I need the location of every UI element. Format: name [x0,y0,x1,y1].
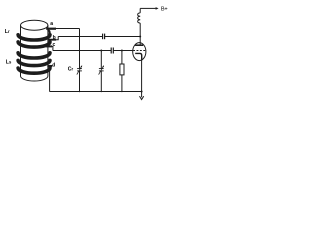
wire c continues to tube grid [113,50,132,52]
variable capacitor Cr2 arrow [99,66,104,75]
winding Ls band 2 [18,60,50,65]
coil form cylinder left side [20,25,22,76]
ground bus wire [50,91,142,93]
wire b jog up [56,37,58,40]
variable capacitor Cr1 bottom plate [77,70,82,72]
winding Lr band 1 end curl to tap a [48,30,50,36]
winding Lr band 2 [18,42,50,47]
tap b stub [48,39,56,41]
variable capacitor Cr2 bottom lead [100,71,102,92]
junction dot wire c / resistor R1 [121,50,123,52]
tap a stub [46,28,56,30]
variable capacitor Cr1 arrow [77,66,82,75]
variable capacitor Cr1 bottom lead [79,71,81,92]
tube V1 plate lead [139,23,141,45]
capacitor C2 right bar [112,48,114,54]
junction dot bus / Cr2 [101,91,102,92]
tube V1 envelope [133,43,146,61]
svg-text:c: c [53,42,56,48]
ground arrow symbol [141,92,143,98]
tube V1 cathode [135,53,142,60]
variable capacitor Cr2 top plate [99,68,104,70]
tube V1 plate bar [135,44,143,46]
resistor R1 body [120,64,124,75]
tap d wire down to bus [49,67,51,92]
svg-text:B+: B+ [161,6,168,12]
B+ arrowhead [156,7,159,10]
wire c horizontal (grid wire) [53,50,111,52]
variable capacitor Cr1 top plate [77,68,82,70]
tap d stub [47,65,52,67]
wire b horizontal to plate node [58,36,102,38]
capacitor C1 plate left bar [102,34,104,40]
variable capacitor Cr2 bottom plate [99,70,104,72]
RF choke coil L1 [138,13,141,23]
capacitor C1 plate right bar [104,34,106,40]
svg-text:b: b [53,35,56,41]
coil form cylinder bottom arc [21,76,48,81]
junction dot bus / Cr1 [79,91,80,92]
junction dot wire b / plate lead [139,36,141,38]
svg-text:a: a [50,21,53,27]
junction dot bus / cathode [141,91,143,93]
resistor R1 top lead [121,51,123,65]
wire c jog down [51,46,54,50]
winding Ls band 3 [18,68,50,73]
wire a horizontal [55,28,80,30]
B+ feed wire [140,7,156,9]
wire b continues to tube plate lead [105,36,141,38]
variable capacitor Cr2 top lead [100,51,102,69]
winding Ls band 1 [18,53,50,58]
junction dot wire c / variable capacitor Cr2 [100,50,102,52]
winding Lr band 1 [18,35,50,40]
tube V1 cathode lead down to ground [141,60,143,91]
coil form cylinder top ellipse [21,20,48,30]
junction dot bus / resistor [121,91,122,92]
capacitor C2 left bar [110,48,112,54]
tap c stub [46,45,52,47]
wire a vertical down to variable capacitor Cr1 [79,29,81,69]
svg-text:d: d [52,62,55,68]
RFC top lead [139,8,141,13]
resistor R1 bottom lead [121,75,123,92]
tube V1 grid (dashed) [133,50,145,52]
coil form cylinder right side [47,25,49,76]
